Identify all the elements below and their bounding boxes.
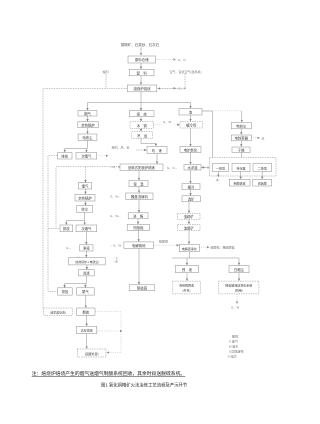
wire 渣 bypass right xyxy=(202,111,213,167)
svg-text:浇 铸: 浇 铸 xyxy=(133,214,144,219)
svg-text:成品酸: 成品酸 xyxy=(258,180,267,185)
wire RC4-RC5 xyxy=(190,190,192,196)
box 铜电解液 two-line dashed xyxy=(219,281,259,294)
wire B2 to B3 xyxy=(140,76,142,85)
wire 水淬渣 to RC4 xyxy=(190,170,192,183)
svg-text:铜电解液送净化系统: 铜电解液送净化系统 xyxy=(225,282,252,287)
wire A2 dotted right xyxy=(252,137,260,139)
svg-text:(外售): (外售) xyxy=(183,287,191,292)
wire 贫化 to 水淬渣 xyxy=(190,153,192,165)
wire T2a-T2b xyxy=(85,189,87,194)
wire into T2e xyxy=(84,221,86,225)
box T3c 洗涤 xyxy=(79,270,95,276)
svg-text:S 固体废物: S 固体废物 xyxy=(229,349,244,354)
svg-text:烟囱: 烟囱 xyxy=(82,309,89,314)
box T2d 排放 xyxy=(60,225,73,232)
svg-text:白烟尘: 白烟尘 xyxy=(234,267,245,272)
box T3b 余热锅炉电收尘 xyxy=(69,258,106,265)
wire RC5-RC6 xyxy=(188,202,190,213)
wire rail48 xyxy=(48,156,60,292)
wire D2 to 吹炼 xyxy=(141,138,156,146)
svg-text:洗涤: 洗涤 xyxy=(83,271,90,276)
wire flux into 吹炼 xyxy=(136,149,146,151)
svg-text:硫酸铜: 硫酸铜 xyxy=(159,239,168,244)
wire into T3d xyxy=(64,284,66,288)
svg-text:G 废气: G 废气 xyxy=(229,339,238,344)
box 烟囱 xyxy=(77,308,95,315)
box 达标排放 xyxy=(77,326,97,333)
svg-text:干燥: 干燥 xyxy=(238,147,245,152)
svg-text:吊 运: 吊 运 xyxy=(137,133,148,138)
svg-text:熔剂、风、氧: 熔剂、风、氧 xyxy=(112,144,130,149)
svg-text:达标排放: 达标排放 xyxy=(81,328,93,333)
wire left dashed rail from B3 xyxy=(43,89,127,309)
svg-text:余热锅炉: 余热锅炉 xyxy=(81,122,95,127)
svg-text:熔剂: 熔剂 xyxy=(103,69,109,74)
svg-text:G、N: G、N xyxy=(178,87,186,91)
box RC7 渣尾矿 dashed xyxy=(178,225,201,231)
wire stub to T2a xyxy=(85,167,87,182)
svg-text:制酸装置: 制酸装置 xyxy=(234,180,246,185)
wire into T3e xyxy=(84,284,86,288)
wire 白烟尘 down xyxy=(238,273,240,281)
wire B4-D1 xyxy=(140,117,142,122)
box T2a 烟气 xyxy=(78,183,91,189)
wire 阳极炉 dashed left rail xyxy=(56,167,120,229)
svg-text:W 废水: W 废水 xyxy=(229,344,239,349)
wire T1a-T1b xyxy=(87,116,89,121)
svg-text:圆盘浇铸机: 圆盘浇铸机 xyxy=(131,194,149,199)
wire B3 dotted right G xyxy=(157,87,176,89)
box B2 配料 xyxy=(129,69,154,76)
svg-text:海绵铜回收: 海绵铜回收 xyxy=(179,282,194,287)
legend xyxy=(228,333,244,358)
wire dotted from 达标排放 right xyxy=(97,330,121,332)
box T1a 烟气 xyxy=(78,111,97,117)
box 吹炼 xyxy=(147,147,167,154)
wire 吹炼 to 阳极炉 xyxy=(156,154,158,164)
svg-text:G←: G← xyxy=(66,246,71,250)
svg-text:G、W: G、W xyxy=(231,306,239,310)
svg-text:选矿: 选矿 xyxy=(188,197,195,202)
wire T3c split xyxy=(65,276,87,284)
box D2 吊运 dashed xyxy=(132,132,153,139)
wire into 白烟尘 xyxy=(238,258,240,265)
svg-text:吹 炼: 吹 炼 xyxy=(152,148,163,153)
svg-text:排放: 排放 xyxy=(63,226,70,231)
svg-text:空气、富氧空气(鼓风机): 空气、富氧空气(鼓风机) xyxy=(170,69,202,74)
wire split to B4 xyxy=(140,103,142,111)
wire R3-R4 xyxy=(138,200,140,213)
wire acid drop xyxy=(241,111,243,122)
svg-text:尾气: 尾气 xyxy=(82,289,89,294)
wire dotted below wide box xyxy=(236,294,238,303)
svg-text:烟气: 烟气 xyxy=(84,111,91,116)
box R3 圆盘浇铸机 xyxy=(126,193,153,200)
svg-text:转化器: 转化器 xyxy=(236,165,245,170)
svg-text:硫酸铜、粗硫酸镍: 硫酸铜、粗硫酸镍 xyxy=(211,244,235,249)
box 阳极炉精炼 xyxy=(120,164,163,171)
box RC5 选矿 xyxy=(182,196,200,202)
svg-text:←G、N: ←G、N xyxy=(110,165,121,169)
box T2b 余热锅炉 xyxy=(75,194,95,201)
box B4 熔炼 xyxy=(129,111,154,117)
box A2 电除雾 xyxy=(231,135,251,141)
box B3 焙烧熔炼炉 xyxy=(127,85,157,92)
wire S1 down xyxy=(217,172,219,177)
box 电解液净化 xyxy=(179,244,199,251)
box T2e 次烟气 xyxy=(76,225,97,232)
box S4 制酸装置 xyxy=(229,179,250,186)
box 阴极铜 xyxy=(129,285,154,291)
wire T2e to 净液 xyxy=(85,232,87,245)
svg-text:配 料: 配 料 xyxy=(137,70,148,75)
svg-text:(送危废处置): (送危废处置) xyxy=(50,310,66,314)
wire RC7 down xyxy=(188,231,190,244)
wire T3a down xyxy=(85,251,87,257)
wire T3b down xyxy=(86,265,88,269)
svg-text:保 温: 保 温 xyxy=(133,181,144,186)
svg-text:排放: 排放 xyxy=(61,153,68,158)
box 渣 xyxy=(179,109,202,116)
wire down to 固废 xyxy=(86,334,88,349)
svg-text:缓冷: 缓冷 xyxy=(188,184,195,189)
wire purify dashed right xyxy=(200,246,210,248)
box 水淬渣 xyxy=(184,165,201,171)
svg-text:焙烧炉焙烧: 焙烧炉焙烧 xyxy=(134,86,152,91)
box 残液 xyxy=(175,265,198,272)
box A1 电收尘 xyxy=(231,123,251,129)
svg-text:次烟气: 次烟气 xyxy=(81,153,92,158)
box T3e 尾气 xyxy=(77,288,95,295)
wire T1e dotted right xyxy=(97,155,108,157)
wire into T1d xyxy=(64,149,66,153)
box S1 一吸塔 xyxy=(213,164,229,172)
wire split to gas1 xyxy=(87,103,89,111)
box 固废处置 dashed xyxy=(78,349,107,357)
wire B1 dotted right G xyxy=(156,59,176,61)
box S5 成品酸 xyxy=(253,179,272,186)
enclosure acid dashed xyxy=(210,158,277,177)
box B1 原料仓储 xyxy=(128,56,156,63)
svg-text:G、W: G、W xyxy=(163,120,171,124)
svg-text:原料仓储: 原料仓储 xyxy=(135,57,149,62)
svg-text:电收尘: 电收尘 xyxy=(82,135,93,140)
svg-text:二吸塔: 二吸塔 xyxy=(258,165,267,170)
box T1d 排放 xyxy=(58,153,73,160)
svg-text:电解精炼: 电解精炼 xyxy=(132,243,146,248)
svg-text:排放: 排放 xyxy=(62,289,69,294)
svg-text:G、N: G、N xyxy=(178,58,186,62)
wire A3 down xyxy=(240,153,242,163)
wire R2-R3 xyxy=(138,187,140,193)
box RC4 缓冷 xyxy=(182,184,200,190)
wire T1c split xyxy=(65,140,88,148)
box D1 冰铜 dashed xyxy=(130,122,153,129)
svg-text:图1 氧化铜精矿火法冶炼工艺流程及产污环节: 图1 氧化铜精矿火法冶炼工艺流程及产污环节 xyxy=(101,381,188,388)
svg-text:→ S: → S xyxy=(203,166,209,170)
svg-text:缓冷场: 缓冷场 xyxy=(186,123,197,128)
wire 渣 to 缓冷场 xyxy=(190,115,192,121)
svg-text:电收尘: 电收尘 xyxy=(236,123,247,128)
svg-text:G、N→: G、N→ xyxy=(167,166,178,170)
wire S2 down xyxy=(240,172,242,179)
svg-text:图例：: 图例： xyxy=(232,333,241,338)
box 电炉贫化 xyxy=(180,147,201,153)
box R6 电解精炼 xyxy=(124,242,154,249)
wire label to 缓冷场 xyxy=(174,124,179,126)
svg-text:净液: 净液 xyxy=(83,246,90,251)
svg-text:熔 炼: 熔 炼 xyxy=(137,112,148,117)
wire split to slag xyxy=(190,103,192,109)
svg-text:阴极铜: 阴极铜 xyxy=(137,285,148,290)
wire R6 to cathode xyxy=(138,248,140,284)
box T2c 收尘 xyxy=(77,206,93,213)
svg-text:电炉贫化: 电炉贫化 xyxy=(184,147,198,152)
wire feed to B1 xyxy=(140,48,142,56)
svg-text:(余热锅炉＋电收尘): (余热锅炉＋电收尘) xyxy=(75,260,99,264)
svg-text:一吸塔: 一吸塔 xyxy=(216,165,225,170)
wire T1b-T1c xyxy=(87,128,89,134)
svg-text:残 液: 残 液 xyxy=(182,267,193,272)
svg-text:G、W←: G、W← xyxy=(110,214,121,218)
svg-text:烟气: 烟气 xyxy=(82,184,89,189)
svg-text:(固废处置): (固废处置) xyxy=(85,351,99,356)
svg-text:渣尾矿: 渣尾矿 xyxy=(184,225,195,230)
wire dotted elbow right xyxy=(95,312,121,353)
wire 残液 down xyxy=(186,273,188,281)
svg-text:电除雾器: 电除雾器 xyxy=(235,136,249,141)
svg-text:铜精矿、石英砂、石灰石: 铜精矿、石英砂、石灰石 xyxy=(121,42,160,47)
box 海绵铜 two-line dashed xyxy=(173,281,201,294)
wire anode to R2 xyxy=(138,171,140,181)
box RC6 渣精矿 dashed xyxy=(178,213,201,219)
wire into T1e xyxy=(86,149,88,153)
svg-text:余热锅炉: 余热锅炉 xyxy=(78,195,92,200)
wire R6 dashed to purify xyxy=(154,244,179,246)
wire RC6-RC7 xyxy=(188,219,190,224)
svg-text:(回用): (回用) xyxy=(235,288,243,292)
box R2 保温 xyxy=(129,181,148,187)
svg-text:次烟气: 次烟气 xyxy=(81,226,92,231)
box T1e 次烟气 xyxy=(76,153,97,160)
svg-text:冰 铜: 冰 铜 xyxy=(137,123,148,128)
wire R5-R6 xyxy=(138,230,140,241)
wire B3 down split xyxy=(88,92,191,103)
box T1c 电收尘 xyxy=(78,134,97,140)
svg-text:渣精矿: 渣精矿 xyxy=(184,214,195,219)
svg-text:水淬渣: 水淬渣 xyxy=(187,165,198,170)
wire D1-D2 xyxy=(140,128,142,131)
wire A1-A2 xyxy=(240,129,242,135)
junction dot xyxy=(120,330,122,332)
svg-text:水: 水 xyxy=(262,135,265,140)
wire T2b-T2c xyxy=(85,201,87,205)
wire R4-R5 xyxy=(137,219,139,224)
svg-text:N 噪声: N 噪声 xyxy=(228,353,237,358)
svg-text:注：焙烧炉焙烧产生的烟气送烟气制酸系统回收，其余时段送脱硫系: 注：焙烧炉焙烧产生的烟气送烟气制酸系统回收，其余时段送脱硫系统。 xyxy=(32,370,186,377)
wire T2c split xyxy=(66,212,84,220)
wire 渣 dotted to acid xyxy=(202,110,242,112)
wire 烟囱 down xyxy=(86,315,88,326)
box 缓冷场 dashed xyxy=(180,122,203,129)
wire into 残液 xyxy=(186,258,188,265)
wire A2-A3 xyxy=(240,141,242,147)
wire B1 to B2 xyxy=(140,63,142,69)
svg-text:→水: →水 xyxy=(112,258,118,263)
box S3 二吸塔 xyxy=(253,164,272,172)
box A3 干燥 xyxy=(232,147,250,153)
wire S3 down xyxy=(261,172,263,179)
box T3d 排放 xyxy=(58,288,73,295)
wire D1 dotted right xyxy=(154,124,162,126)
svg-text:水: 水 xyxy=(216,177,219,182)
box T1b 余热锅炉 xyxy=(78,122,99,128)
box S2 转化器 xyxy=(232,164,250,172)
wire into T2d xyxy=(65,221,67,225)
wire 缓冷场 to 贫化 xyxy=(190,128,192,146)
svg-text:回转式阳极炉精炼: 回转式阳极炉精炼 xyxy=(128,165,156,170)
wire purify down split xyxy=(172,252,239,258)
svg-text:G、W←: G、W← xyxy=(110,195,121,199)
svg-text:←G、W: ←G、W xyxy=(110,243,121,247)
box 白烟尘 xyxy=(229,266,249,273)
box 送危废 dashed xyxy=(44,308,72,315)
wire 熔剂 dashed down xyxy=(105,74,107,89)
svg-text:阳极板: 阳极板 xyxy=(133,225,144,230)
svg-text:收尘: 收尘 xyxy=(81,207,88,212)
wire air dashed elbow xyxy=(158,74,185,89)
box R5 阳极板 xyxy=(127,224,149,230)
wire T3e down xyxy=(85,295,87,307)
svg-text:电解液净化: 电解液净化 xyxy=(182,246,197,251)
box R4 浇铸 xyxy=(128,213,148,219)
box T3a 净液 xyxy=(80,245,93,251)
